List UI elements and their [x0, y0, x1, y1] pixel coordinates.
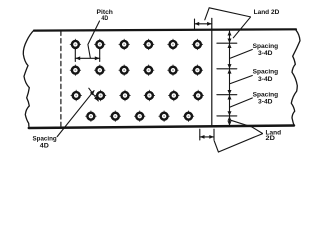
- arrowhead bottom down: [228, 121, 232, 126]
- diag spacing leader: [57, 91, 94, 137]
- hole R1C4: [143, 39, 153, 49]
- hole R2C4: [143, 65, 153, 75]
- hole R2C5: [168, 65, 178, 75]
- hole R3C2: [95, 90, 105, 100]
- pitch dimension extension line left: [74, 49, 76, 62]
- top land callout polyline: [205, 8, 251, 20]
- hole R3C5: [169, 90, 179, 100]
- arrowheads at tick row2: [228, 64, 232, 74]
- hole R4C2: [110, 111, 120, 121]
- bottom land callout polyline: [214, 134, 262, 152]
- arrowheads at tick row1: [228, 39, 232, 49]
- bottom land dim arrow line: [200, 136, 214, 138]
- hole R1C3: [119, 39, 129, 49]
- svg-text:Spacing: Spacing: [33, 135, 57, 142]
- strip top edge: [34, 29, 296, 30]
- bottom land arrowhead left: [200, 135, 205, 139]
- dashed margin line: [60, 31, 62, 126]
- diag arrowhead lower: [94, 96, 99, 101]
- spacing label3 leader: [230, 98, 252, 107]
- top land second leader: [233, 17, 250, 38]
- svg-text:2D: 2D: [266, 135, 276, 142]
- tick row3: [217, 94, 237, 96]
- arrowhead top up: [228, 31, 232, 36]
- bottom land leader upper: [231, 120, 262, 133]
- top land dim arrow line: [195, 23, 212, 25]
- pitch leader: [88, 21, 100, 58]
- top land dim extension line left: [194, 19, 196, 30]
- pitch dimension arrow line: [75, 57, 99, 59]
- left torn edge: [23, 30, 34, 126]
- right torn edge: [291, 30, 300, 125]
- arrowheads at tick row3: [228, 90, 232, 100]
- hole R3C4: [144, 90, 154, 100]
- hole R1C1: [70, 39, 80, 49]
- hole R3C1: [71, 90, 81, 100]
- svg-text:4D: 4D: [40, 143, 50, 150]
- hole R1C5: [168, 39, 178, 49]
- pitch dimension extension line right: [99, 49, 101, 62]
- hole R2C1: [70, 65, 80, 75]
- bottom land dim extension line left: [199, 129, 201, 140]
- tick row2: [217, 68, 237, 70]
- hole R3C6: [193, 90, 203, 100]
- svg-text:3-4D: 3-4D: [258, 76, 273, 83]
- hole R4C3: [135, 111, 145, 121]
- spacing label1 leader: [230, 50, 252, 59]
- svg-text:Land 2D: Land 2D: [254, 9, 280, 16]
- top land arrowhead right: [207, 22, 212, 26]
- top land arrowhead left: [195, 22, 200, 26]
- hole R1C2: [95, 39, 105, 49]
- arrowheads at tick row4: [228, 111, 232, 120]
- right dimension line: [229, 31, 231, 126]
- hole R4C1: [86, 111, 96, 121]
- tick row4: [217, 115, 237, 117]
- svg-text:3-4D: 3-4D: [258, 50, 273, 57]
- hole R1C6: [192, 39, 202, 49]
- bottom land dim extension line right: [213, 129, 215, 140]
- svg-text:Spacing: Spacing: [253, 92, 279, 99]
- diag cross line: [89, 88, 99, 101]
- svg-text:Spacing: Spacing: [253, 69, 279, 76]
- svg-text:4D: 4D: [101, 15, 108, 22]
- strip bottom edge: [29, 126, 294, 129]
- hole R4C4: [159, 111, 169, 121]
- hole R2C6: [192, 65, 202, 75]
- hole R4C5: [183, 111, 193, 121]
- tick row1: [217, 42, 237, 44]
- spacing label2 leader: [230, 76, 252, 84]
- svg-text:3-4D: 3-4D: [258, 99, 273, 106]
- hole R2C3: [119, 65, 129, 75]
- hole R3C3: [120, 90, 130, 100]
- bottom land arrowhead right: [209, 135, 214, 139]
- pitch arrowhead right: [95, 56, 100, 60]
- vertical extension line through strip: [211, 18, 213, 126]
- svg-text:Spacing: Spacing: [253, 43, 279, 50]
- hole R2C2: [95, 65, 105, 75]
- pitch arrowhead left: [75, 56, 80, 60]
- diag arrowhead upper: [90, 90, 95, 95]
